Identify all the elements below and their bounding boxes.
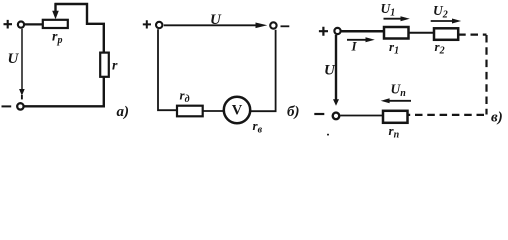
svg-text:V: V bbox=[232, 103, 243, 119]
svg-text:U: U bbox=[8, 51, 20, 67]
svg-text:r: r bbox=[112, 59, 118, 74]
svg-text:б): б) bbox=[287, 104, 299, 120]
svg-text:U: U bbox=[210, 12, 222, 28]
svg-text:I: I bbox=[351, 39, 358, 54]
svg-text:U: U bbox=[324, 63, 336, 79]
svg-text:в): в) bbox=[491, 110, 503, 126]
svg-text:а): а) bbox=[117, 104, 130, 120]
